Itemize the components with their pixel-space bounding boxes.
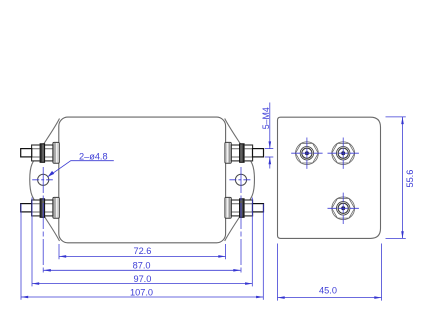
svg-text:87.0: 87.0 [133,260,151,270]
svg-text:2–ø4.8: 2–ø4.8 [79,151,108,161]
svg-text:72.6: 72.6 [133,246,151,256]
svg-text:5–M4: 5–M4 [261,107,271,129]
svg-text:55.6: 55.6 [405,170,415,188]
svg-text:45.0: 45.0 [319,285,337,295]
svg-text:97.0: 97.0 [133,274,151,284]
svg-text:107.0: 107.0 [130,288,153,298]
